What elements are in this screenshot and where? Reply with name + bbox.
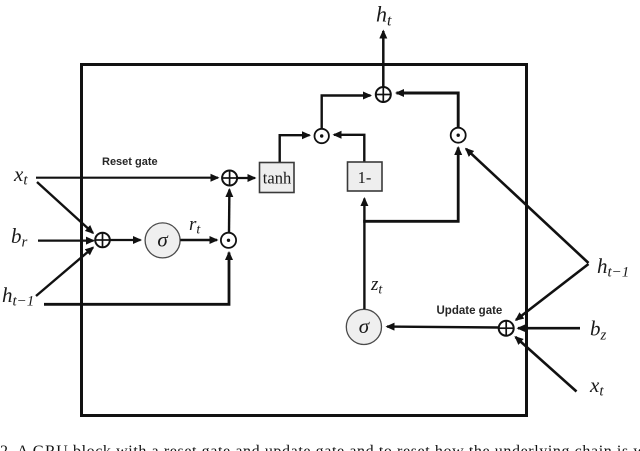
multiplier mult-left [315, 129, 329, 143]
box 1- [348, 162, 383, 191]
sigma unit sigma-z [346, 309, 381, 344]
adder plus-reset [222, 171, 237, 186]
svg-text:σ: σ [359, 314, 371, 338]
wire z_t from sigma-z up to 1- box [363, 199, 365, 310]
wire x_t right diagonal to plus-z [516, 337, 577, 392]
wire h_t-1 right diagonal up to mult-right [466, 149, 589, 263]
wire plus-z to sigma-z [387, 325, 499, 328]
wire b_z to plus-z [518, 327, 580, 330]
svg-text:1-: 1- [358, 168, 372, 187]
wire mult-r up to plus-reset [228, 190, 231, 233]
wire x_t to plus-reset [36, 177, 218, 179]
adder plus-r [95, 233, 110, 248]
adder plus-top U-add [376, 87, 391, 102]
wire h_t-1 right diagonal down to plus-z [516, 264, 589, 320]
wire mult-left to plus-top [322, 96, 371, 129]
svg-text:Update gate: Update gate [437, 305, 503, 317]
svg-text:σ: σ [157, 228, 169, 252]
svg-text:Reset gate: Reset gate [102, 156, 158, 168]
sigma unit sigma-r [145, 223, 180, 258]
wire tanh output to mult-left [280, 135, 310, 163]
GRU block outer rectangle [82, 65, 527, 416]
wire 1- output to mult-left [334, 135, 364, 163]
wire x_t diagonal to plus-r [37, 182, 93, 233]
box tanh [260, 163, 295, 193]
wire sigma-r to mult-r [180, 239, 217, 242]
wire b_r to plus-r [38, 240, 94, 242]
adder plus-z [499, 321, 514, 336]
wire z_t branch right up to mult-right [363, 148, 458, 222]
wire mult-right to plus-top [397, 93, 459, 128]
wire h_t-1 diagonal to plus-r [36, 248, 93, 297]
multiplier mult-right [451, 128, 466, 143]
multiplier mult-r [221, 233, 236, 248]
wire plus-reset to tanh [237, 177, 255, 179]
wire h_t-1 horizontal then up to mult-r [44, 253, 229, 305]
wire plus-r to sigma-r [110, 239, 140, 241]
wire h_t output arrow [382, 31, 385, 87]
svg-text:tanh: tanh [263, 169, 292, 188]
svg-text:2. A GRU block with a reset ga: 2. A GRU block with a reset gate and upd… [0, 443, 640, 451]
